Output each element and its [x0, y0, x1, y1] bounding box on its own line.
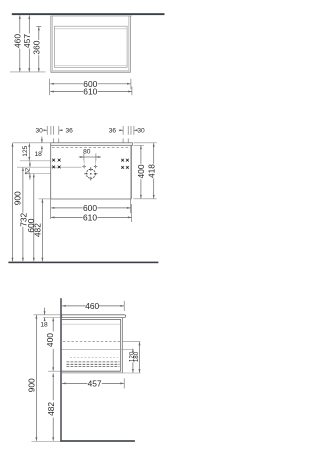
svg-text:418: 418 [146, 164, 156, 178]
svg-text:18: 18 [40, 321, 48, 328]
svg-text:125: 125 [22, 145, 29, 156]
svg-text:80: 80 [83, 148, 91, 155]
svg-text:610: 610 [83, 87, 97, 97]
svg-text:180: 180 [133, 351, 140, 362]
svg-text:460: 460 [85, 301, 99, 311]
svg-text:30: 30 [137, 128, 145, 135]
svg-text:30: 30 [36, 128, 44, 135]
svg-text:482: 482 [46, 402, 56, 416]
svg-text:900: 900 [27, 378, 37, 392]
svg-text:460: 460 [13, 34, 23, 48]
svg-text:400: 400 [136, 164, 146, 178]
svg-text:600: 600 [83, 203, 97, 213]
svg-text:18: 18 [35, 151, 43, 158]
svg-text:400: 400 [45, 333, 55, 347]
svg-text:457: 457 [88, 378, 102, 388]
svg-text:360: 360 [31, 40, 41, 54]
svg-text:36: 36 [109, 128, 117, 135]
svg-text:36: 36 [66, 128, 74, 135]
svg-text:610: 610 [83, 212, 97, 222]
svg-text:482: 482 [33, 223, 43, 237]
svg-text:900: 900 [12, 191, 22, 205]
